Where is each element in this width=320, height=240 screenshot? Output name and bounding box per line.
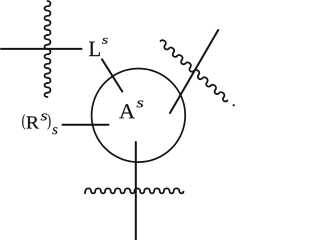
bond from L^s down-right into ring <box>102 59 122 91</box>
open parenthesis of (R^s)_s <box>22 114 25 130</box>
letter A of A^s <box>119 104 135 118</box>
wavy bond-cut line (vertical, upper left) <box>45 1 51 97</box>
bond from (R^s)_s into ring (horizontal, left) <box>63 124 109 126</box>
superscript s of A^s <box>137 101 144 108</box>
bond up-right out of ring <box>170 30 218 113</box>
wavy bond-cut line (diagonal, upper right) <box>161 40 228 101</box>
subscript s of (R^s)_s <box>52 127 57 134</box>
bond down from ring (vertical, bottom) <box>135 142 137 240</box>
bond to L^s (horizontal wire, upper left) <box>1 48 82 50</box>
superscript s of (R^s)_s <box>41 114 47 121</box>
superscript s of L^s <box>102 38 108 44</box>
letter R of (R^s)_s <box>26 116 39 128</box>
close parenthesis of (R^s)_s <box>48 114 51 130</box>
printing speck right of diagonal wavy line <box>233 104 235 106</box>
wavy bond-cut line (horizontal, bottom) <box>85 188 184 193</box>
letter L of L^s <box>89 42 100 57</box>
ring A^s (central circle) <box>92 69 186 163</box>
